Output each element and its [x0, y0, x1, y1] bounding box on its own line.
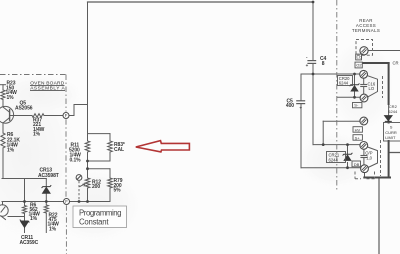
svg-text:CAL: CAL: [114, 147, 124, 153]
svg-text:HV: HV: [355, 127, 361, 132]
svg-text:S+: S+: [355, 135, 361, 140]
svg-text:0.1%: 0.1%: [70, 157, 82, 163]
svg-text:AC359C: AC359C: [20, 240, 39, 246]
svg-text:5%: 5%: [114, 188, 122, 194]
svg-text:LIMIT: LIMIT: [385, 135, 396, 140]
svg-text:1%: 1%: [7, 95, 15, 101]
svg-text:LO: LO: [369, 86, 375, 91]
svg-text:F: F: [65, 113, 68, 118]
svg-text:6244: 6244: [388, 109, 398, 114]
svg-text:Programming: Programming: [79, 209, 122, 218]
svg-text:DB: DB: [354, 162, 360, 167]
svg-text:CR: CR: [393, 61, 399, 66]
svg-text:400: 400: [286, 103, 294, 109]
svg-text:6244: 6244: [329, 157, 339, 162]
svg-text:1%: 1%: [49, 227, 57, 233]
svg-text:AS2056: AS2056: [15, 105, 33, 111]
svg-text:200: 200: [92, 184, 100, 190]
svg-text:S-: S-: [354, 103, 359, 108]
svg-text:6244: 6244: [339, 81, 349, 86]
svg-text:1%: 1%: [30, 216, 38, 222]
svg-text:F: F: [65, 199, 68, 204]
svg-text:LO: LO: [357, 55, 362, 60]
svg-text:TERMINALS: TERMINALS: [352, 28, 380, 33]
svg-text:8: 8: [322, 61, 325, 67]
svg-text:Constant: Constant: [79, 217, 109, 226]
svg-text:O2: O2: [356, 63, 362, 68]
svg-text:1%: 1%: [33, 132, 41, 138]
svg-text:1,0: 1,0: [366, 155, 372, 160]
svg-text:1%: 1%: [7, 148, 15, 154]
svg-text:AC3598T: AC3598T: [38, 173, 59, 179]
